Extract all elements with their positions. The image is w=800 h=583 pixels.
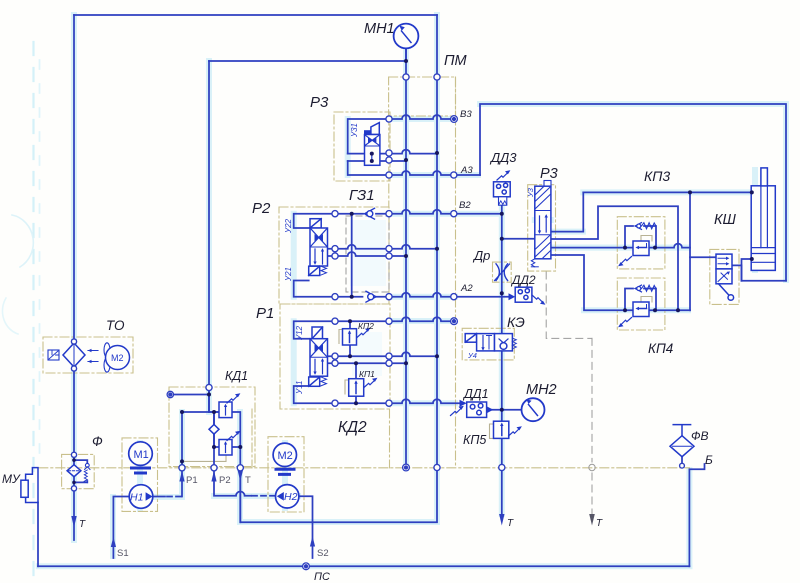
arrow S2	[310, 536, 315, 547]
wire FV stem	[681, 457, 683, 464]
svg-text:У4: У4	[467, 351, 477, 360]
wire GZ1 pilot	[351, 214, 353, 297]
wire PS bottom line	[38, 565, 689, 567]
wire MN2 stem	[502, 409, 522, 411]
pressure sensor DD3	[494, 170, 511, 205]
wire P1 riser	[181, 412, 183, 497]
enclosure TO	[43, 337, 133, 373]
enclosure GZ1 hydraulic lock	[346, 216, 389, 292]
valve U11 solenoid with spring	[309, 377, 327, 386]
valve R2 body U22/U21	[310, 228, 328, 266]
station boundary line	[39, 467, 690, 469]
enclosure KP3	[617, 217, 665, 269]
svg-text:КП3: КП3	[644, 168, 670, 184]
wire A3 riser to rod side	[480, 104, 786, 281]
wire KD1 inlet	[209, 388, 219, 413]
coupling M1-N1	[132, 468, 150, 473]
wire N1 outlet dashed	[167, 496, 181, 498]
enclosure R2	[279, 207, 389, 304]
wire rung R2-P	[335, 245, 437, 249]
svg-text:В2: В2	[459, 200, 471, 211]
wire U21 loop bottom	[294, 281, 335, 297]
arrow T manifold	[499, 514, 504, 526]
svg-text:ПС: ПС	[314, 571, 330, 583]
wire rung B2	[335, 210, 502, 214]
check valve KP3 bypass	[635, 223, 656, 230]
wire U22 loop top	[294, 214, 335, 228]
wire R3 port A	[551, 192, 583, 231]
enclosure KE	[462, 328, 514, 360]
wire R1 port stubs	[328, 356, 336, 363]
arrow P2	[211, 471, 216, 482]
wire P2 riser	[214, 412, 251, 496]
filter F	[67, 463, 90, 482]
GHOSTS	[2, 42, 386, 583]
boundary vertical	[389, 77, 456, 468]
svg-text:ГЗ1: ГЗ1	[349, 187, 375, 204]
svg-text:S1: S1	[117, 548, 129, 559]
hydraulic cylinder KSh	[751, 168, 775, 271]
wire R3 port B	[551, 206, 678, 310]
valve U31 body	[365, 135, 380, 166]
valve U31 solenoid	[364, 123, 379, 135]
enclosure Dr	[493, 262, 512, 282]
check valve GZ1 upper	[365, 208, 375, 219]
svg-text:М1: М1	[134, 449, 149, 461]
svg-text:Р3: Р3	[540, 166, 558, 182]
arrow P1	[179, 471, 184, 482]
wire PM bus lower / T collector	[313, 468, 438, 522]
counterbalance valve KP4	[618, 302, 649, 327]
wire KP4 bypass loop	[625, 289, 656, 311]
svg-text:М2: М2	[278, 450, 293, 462]
svg-text:КД1: КД1	[225, 369, 248, 383]
wire pump pressure bus	[405, 48, 407, 468]
svg-text:У11: У11	[295, 381, 304, 395]
pump N1	[129, 485, 153, 509]
wire KD1 T column	[232, 412, 240, 522]
check valve KD1 diamond	[209, 425, 219, 435]
relief valve KP5	[494, 421, 522, 438]
svg-text:Ф: Ф	[92, 434, 103, 449]
fan motor M2	[104, 343, 130, 372]
valve U12 solenoid	[312, 327, 323, 339]
pressure gauge MN1	[394, 24, 419, 49]
check valve GZ1 lower	[366, 291, 376, 302]
svg-text:МУ: МУ	[2, 472, 21, 486]
svg-text:ДД1: ДД1	[462, 387, 489, 401]
svg-text:ФВ: ФВ	[691, 429, 709, 443]
wire rung R1-T	[335, 362, 406, 364]
svg-text:КШ: КШ	[714, 212, 737, 228]
wire KP2 risers	[349, 321, 351, 356]
wire U11 loop bottom	[294, 386, 335, 403]
svg-text:У12: У12	[295, 325, 304, 341]
svg-text:У3: У3	[526, 187, 535, 198]
arrow S1	[111, 537, 116, 548]
svg-text:А2: А2	[460, 283, 473, 294]
wire junction riser	[689, 192, 691, 310]
wire B2 sensor branch	[501, 205, 503, 333]
wire MU drop	[37, 503, 39, 567]
svg-text:КД2: КД2	[338, 419, 367, 436]
enclosure R3 proportional	[528, 185, 556, 271]
svg-text:М2: М2	[111, 353, 124, 363]
svg-text:В3: В3	[460, 109, 472, 120]
wire N1 suction S1	[113, 497, 129, 559]
svg-text:ТО: ТО	[106, 318, 125, 333]
wire tank bracket	[689, 464, 704, 469]
electric motor M1	[129, 442, 153, 466]
relief valve KP2	[343, 328, 371, 345]
wire rung R2-T	[335, 252, 406, 256]
wire F bypass	[74, 460, 87, 482]
svg-text:Н1: Н1	[130, 492, 143, 504]
hose connector MU	[21, 468, 38, 503]
arrow T KD1	[238, 471, 243, 482]
relief valve KD1 lower	[219, 431, 240, 455]
svg-text:Р3: Р3	[310, 94, 329, 111]
pressure sensor DD2	[509, 287, 546, 305]
wire KP1 risers	[355, 363, 357, 403]
relief valve KD1 upper	[219, 393, 240, 417]
svg-text:МН1: МН1	[364, 21, 395, 37]
valve R1 body U12/U11	[310, 339, 328, 377]
svg-text:А3: А3	[460, 165, 473, 176]
svg-text:Др: Др	[472, 248, 490, 263]
electric motor M2 drive	[273, 443, 296, 466]
wire top frame	[74, 14, 437, 16]
coupling M2-N2	[276, 469, 294, 474]
wire rod side port	[742, 259, 752, 281]
wire rung R1 bottom to DD1	[335, 399, 459, 403]
wire KD1 valve2 feed	[214, 412, 219, 447]
wire N2 outlet	[299, 496, 313, 522]
solenoid valve KE	[465, 334, 516, 351]
throttle Dr	[495, 264, 510, 281]
internal drain line KD1	[182, 456, 226, 461]
svg-text:У31: У31	[350, 123, 359, 138]
svg-text:Б: Б	[705, 453, 713, 467]
wire rung A3	[389, 171, 480, 175]
svg-text:Т: Т	[507, 518, 514, 529]
wire T return KD1	[240, 468, 312, 522]
svg-text:S2: S2	[317, 548, 329, 559]
wire KSh valve outlet	[732, 265, 786, 280]
svg-text:P2: P2	[219, 475, 231, 486]
wire second frame vertical P2 feed	[208, 61, 210, 412]
wire KSh valve feed	[690, 256, 716, 258]
wire KE to manifold	[501, 351, 503, 514]
enclosure R1	[280, 304, 390, 409]
arrow T grey	[589, 514, 595, 526]
enclosure KSh valve	[710, 249, 739, 304]
svg-text:КП1: КП1	[359, 369, 375, 379]
svg-text:Т: Т	[596, 518, 603, 529]
wire MN1 stem	[405, 48, 407, 61]
wire U31 loop top	[348, 119, 389, 154]
plugged nodes	[167, 116, 457, 570]
wire KD1 P1 branch	[183, 411, 219, 413]
counterbalance valve KP3	[618, 241, 649, 266]
enclosure R3	[334, 112, 390, 181]
svg-text:ДД3: ДД3	[489, 150, 517, 165]
check valve KP4 bypass	[635, 285, 656, 292]
hand valve KSh pilot	[716, 254, 734, 300]
wire P2 link dashed	[252, 495, 276, 497]
svg-text:P1: P1	[186, 475, 198, 486]
enclosure KD2 left edge	[251, 409, 253, 468]
wire rung A2	[335, 293, 508, 297]
wire piston side line	[583, 191, 751, 193]
wire KP3 bypass loop	[625, 226, 656, 248]
relief valve KP1	[349, 378, 378, 397]
wire U12 loop top	[294, 321, 335, 339]
drain line T dashed	[591, 338, 593, 514]
pump N2	[276, 485, 299, 508]
proportional valve R3	[531, 181, 551, 267]
wire R3 feed	[502, 238, 535, 240]
wire R3 port to KP4	[551, 255, 690, 310]
valve U22 solenoid	[310, 219, 321, 228]
svg-text:ПМ: ПМ	[444, 53, 468, 69]
wire rung U31-T	[348, 160, 406, 162]
valve U21 solenoid with spring	[309, 266, 327, 275]
svg-text:Т: Т	[79, 519, 86, 530]
enclosure M1-N1	[122, 438, 158, 512]
wire S2 suction	[312, 522, 314, 558]
port circles	[71, 74, 684, 491]
svg-text:Р2: Р2	[252, 200, 271, 217]
electric link R3 pilot to drain	[546, 272, 592, 338]
heat exchanger TO	[48, 343, 98, 367]
svg-text:T: T	[245, 475, 251, 486]
wire rung R1-P	[335, 352, 437, 356]
wire KP3 line	[551, 244, 690, 248]
svg-text:У21: У21	[284, 267, 293, 282]
pilot boxes KP3 KP4	[641, 236, 652, 242]
GREY DASHED	[346, 216, 595, 526]
enclosure M2-N2	[268, 437, 304, 512]
wire U31 loop bottom	[348, 161, 389, 175]
arrow T left	[71, 516, 76, 528]
pressure sensor DD1	[451, 400, 494, 418]
breather filter FV	[670, 425, 694, 457]
pilot box KP5	[490, 424, 496, 438]
svg-text:Р1: Р1	[256, 305, 274, 322]
svg-text:У22: У22	[284, 218, 293, 234]
enclosure F	[62, 454, 95, 488]
wire tank drop	[688, 470, 690, 566]
wire rung R1 top	[335, 317, 451, 321]
wire rung U31-P	[348, 150, 437, 154]
svg-text:КП5: КП5	[463, 433, 486, 447]
pilot boxes KP2 KP1	[339, 330, 343, 344]
svg-text:КП4: КП4	[648, 341, 673, 356]
wire PM bus	[436, 15, 438, 468]
enclosure KP4	[617, 278, 665, 330]
wire rung B3	[389, 115, 451, 119]
wire KD1 plug stub	[174, 394, 210, 396]
svg-text:ДД2: ДД2	[510, 273, 536, 287]
OLIVE BOXES	[39, 77, 739, 512]
boundary crossing circle	[589, 464, 595, 470]
wire R2 port stubs	[328, 249, 336, 256]
wire DD1 link	[487, 409, 502, 411]
wire left trunk to tank	[73, 15, 75, 540]
svg-text:КЭ: КЭ	[507, 314, 525, 330]
svg-text:Н2: Н2	[284, 491, 298, 503]
svg-text:МН2: МН2	[526, 382, 557, 398]
wire second frame horizontal	[209, 60, 406, 62]
enclosure PM	[389, 77, 456, 116]
wire N1 outlet	[153, 496, 165, 498]
svg-text:КП2: КП2	[358, 321, 374, 331]
pressure gauge MN2	[522, 398, 545, 421]
scan ghost artifacts left edge	[32, 42, 34, 583]
enclosure KD1	[169, 387, 255, 467]
